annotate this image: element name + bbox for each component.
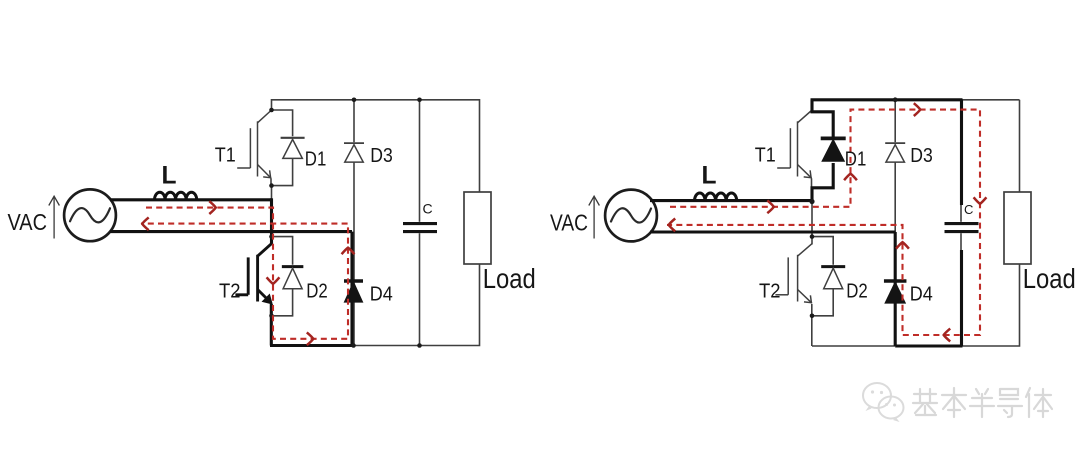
svg-text:D3: D3 — [370, 145, 393, 167]
svg-text:Load: Load — [483, 263, 536, 294]
svg-text:D1: D1 — [305, 149, 327, 171]
svg-text:D2: D2 — [846, 280, 868, 302]
svg-text:C: C — [423, 200, 433, 216]
svg-text:L: L — [702, 162, 717, 190]
svg-text:C: C — [964, 202, 973, 217]
svg-text:T2: T2 — [759, 280, 781, 302]
svg-text:T1: T1 — [755, 145, 776, 167]
svg-text:T1: T1 — [215, 145, 236, 167]
svg-text:VAC: VAC — [8, 209, 48, 235]
svg-text:L: L — [162, 162, 177, 190]
svg-text:T2: T2 — [219, 280, 241, 302]
svg-text:D3: D3 — [910, 145, 933, 167]
svg-text:VAC: VAC — [550, 209, 588, 235]
svg-text:D2: D2 — [306, 280, 328, 302]
svg-text:D1: D1 — [845, 149, 867, 171]
svg-text:D4: D4 — [910, 283, 933, 305]
svg-text:D4: D4 — [370, 283, 393, 305]
svg-text:Load: Load — [1023, 263, 1076, 294]
